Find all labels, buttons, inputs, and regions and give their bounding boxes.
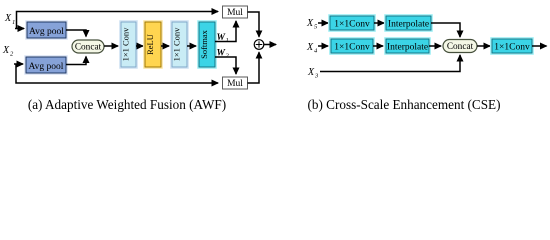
conv box b1 (1x1Conv)	[328, 14, 376, 32]
svg-text:Avg pool: Avg pool	[29, 62, 64, 72]
avg pool box 1	[25, 20, 68, 40]
wire W2 to bottom Mul	[215, 57, 236, 74]
wire pool2 to concat	[66, 57, 86, 65]
wire X4 input	[318, 45, 328, 47]
svg-text:(a) Adaptive Weighted Fusion (: (a) Adaptive Weighted Fusion (AWF)	[28, 97, 226, 112]
svg-text:1: 1	[12, 19, 15, 26]
svg-text:(b) Cross-Scale Enhancement (C: (b) Cross-Scale Enhancement (CSE)	[308, 97, 501, 112]
label W2	[217, 49, 230, 60]
mul box top	[223, 6, 248, 18]
wire X2 input	[14, 63, 23, 65]
svg-text:X: X	[306, 42, 314, 53]
conv box b2 (1x1Conv)	[329, 37, 375, 55]
svg-text:Mul: Mul	[227, 8, 243, 18]
wire pool1 to concat	[66, 30, 86, 37]
conv box 1 (1x1 Conv vertical)	[119, 20, 138, 69]
wire top Mul to adder	[248, 12, 260, 37]
wire conv1 to relu	[136, 45, 143, 47]
wire X3 to concat bottom	[320, 55, 460, 72]
svg-text:1×1Conv: 1×1Conv	[334, 43, 370, 53]
interpolate box b1	[384, 14, 433, 32]
node X3	[307, 67, 319, 80]
node X4	[306, 42, 318, 55]
wire concat to conv b3	[477, 45, 490, 47]
svg-text:1×1 Conv: 1×1 Conv	[121, 27, 131, 62]
node X2	[2, 45, 14, 58]
label W1	[217, 33, 229, 44]
svg-text:X: X	[307, 67, 315, 78]
concat ellipse (a)	[72, 40, 104, 53]
wire concat to conv1	[104, 45, 118, 47]
svg-text:1×1Conv: 1×1Conv	[334, 20, 370, 30]
wire bottom Mul to adder	[248, 52, 260, 83]
softmax box	[197, 20, 217, 69]
svg-text:Concat: Concat	[447, 42, 474, 52]
svg-text:1: 1	[226, 37, 229, 44]
svg-text:Interpolate: Interpolate	[387, 43, 428, 53]
adder circle	[254, 40, 264, 50]
svg-text:Interpolate: Interpolate	[388, 20, 429, 30]
avg pool box 2	[24, 55, 68, 75]
wire X5 input	[318, 22, 328, 24]
wire output (b)	[532, 45, 547, 47]
mul box bottom	[223, 77, 248, 89]
wire conv2 to softmax	[187, 45, 196, 47]
svg-text:1×1Conv: 1×1Conv	[494, 43, 530, 53]
svg-text:1×1 Conv: 1×1 Conv	[172, 27, 182, 62]
wire adder output	[264, 44, 276, 46]
conv box b3 (1x1Conv)	[490, 37, 534, 55]
wire relu to conv2	[161, 45, 169, 47]
wire X1 bypass to top Mul	[17, 12, 219, 29]
svg-text:Softmax: Softmax	[199, 29, 209, 59]
wire conv b2 to interpolate b2	[373, 45, 383, 47]
conv box 2 (1x1 Conv vertical)	[170, 20, 189, 69]
svg-text:Mul: Mul	[227, 79, 243, 89]
node X1	[4, 13, 15, 26]
svg-text:Avg pool: Avg pool	[29, 27, 64, 37]
wire interpolate b1 to concat top	[431, 23, 460, 37]
wire X1 input	[15, 28, 24, 30]
relu box	[143, 20, 163, 69]
interpolate box b2	[384, 37, 431, 55]
svg-text:X: X	[2, 45, 10, 56]
node X5	[306, 18, 318, 31]
svg-text:ReLU: ReLU	[145, 34, 155, 55]
wire X2 bypass to bottom Mul	[16, 64, 218, 83]
concat ellipse (b)	[443, 40, 477, 53]
svg-text:X: X	[4, 13, 12, 24]
wire interpolate b2 to concat	[429, 45, 441, 47]
wire conv b1 to interpolate b1	[374, 22, 384, 24]
svg-text:Concat: Concat	[75, 43, 102, 53]
svg-text:X: X	[306, 18, 314, 29]
wire W1 to top Mul	[215, 21, 236, 42]
